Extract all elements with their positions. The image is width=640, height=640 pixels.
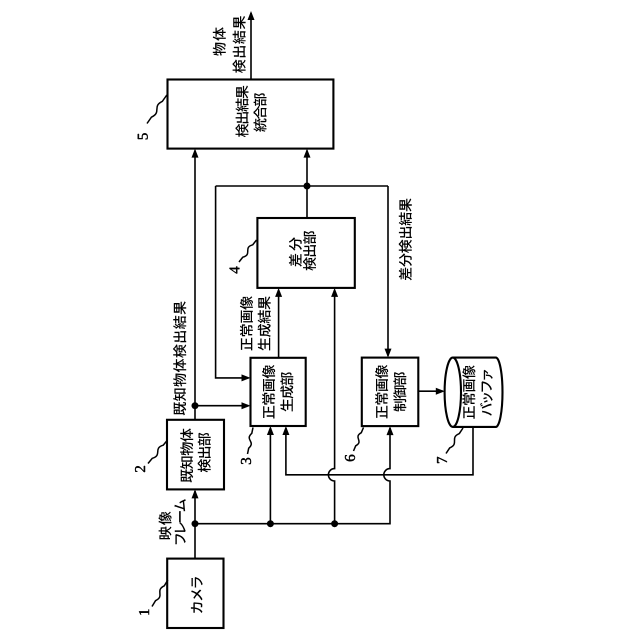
- arrowhead into block 5 left edge lower: [304, 149, 311, 158]
- block 5 text line2 統合部: [253, 93, 266, 132]
- junction dot at video frame trunk start: [192, 520, 199, 527]
- reference numeral 5: [138, 133, 148, 139]
- arrowhead into block 5 left edge upper: [192, 149, 199, 158]
- wire 既知物体検出結果 branch down into box3 top: [195, 405, 249, 407]
- reference numeral 3: [241, 458, 251, 464]
- buffer 7 正常画像バッファ (normal image buffer) cylinder: [453, 358, 503, 427]
- block 6 正常画像制御部 (normal image controller) box: [362, 358, 419, 427]
- arrowhead into block 3 left edge lower: [282, 426, 289, 435]
- wire 差分検出結果 box4 to box5: [306, 151, 308, 219]
- junction dot video frame branch to box4: [331, 520, 338, 527]
- arrowhead into block 4 left edge: [331, 288, 338, 297]
- reference numeral 2: [135, 466, 145, 472]
- arrowhead into block 6 left edge: [387, 426, 394, 435]
- arrowhead into block 3 left edge upper: [267, 426, 274, 435]
- label 差分検出結果 (difference detection result): [399, 198, 412, 280]
- block 3 text line2 生成部: [280, 372, 293, 411]
- label 映像 (video): [159, 512, 172, 540]
- label 検出結果 line2 of 物体検出結果: [233, 16, 246, 73]
- label 正常画像 line1 of 正常画像生成結果: [240, 296, 253, 350]
- label フレーム (frame): [174, 499, 185, 544]
- leader squiggle for numeral 6: [354, 428, 364, 452]
- wire 映像フレーム box1 to box2: [194, 491, 196, 559]
- reference numeral 1: [139, 609, 149, 614]
- junction dot difference result branch: [304, 183, 311, 190]
- wire 物体検出結果 output from box5: [250, 13, 252, 80]
- reference numeral 6: [345, 455, 355, 462]
- arrowhead into block 3 top edge left: [242, 402, 251, 409]
- label 生成結果 line2 of 正常画像生成結果: [258, 296, 271, 350]
- block 6 text line2 制御部: [393, 372, 406, 411]
- block 2 既知物体検出部 (known object detector) box: [167, 420, 224, 490]
- leader squiggle for numeral 2: [148, 440, 168, 464]
- leader squiggle for numeral 4: [239, 240, 257, 262]
- arrowhead into block 6 right edge: [385, 349, 392, 358]
- block 1 label text カメラ: [191, 577, 203, 613]
- junction dot known-object result branch: [192, 402, 199, 409]
- leader squiggle for numeral 7: [446, 428, 463, 454]
- reference numeral 4: [230, 267, 240, 274]
- block 4 text line1 差分: [289, 237, 302, 267]
- leader squiggle for numeral 1: [152, 580, 168, 607]
- wire 既知物体検出結果 box2 to box5: [194, 151, 196, 420]
- arrowhead into buffer top: [436, 388, 445, 395]
- wire 映像フレーム trunk down and into box6 left: [195, 428, 390, 524]
- block 2 text line2 検出部: [198, 433, 211, 473]
- buffer 7 text line1 正常画像: [462, 365, 475, 418]
- reference numeral 7: [437, 457, 447, 463]
- arrowhead into block 3 top edge right: [242, 374, 251, 381]
- label 既知物体検出結果 (known object detection result): [173, 301, 186, 415]
- wire box6 to buffer: [418, 390, 443, 392]
- block 5 検出結果統合部 (detection result integrator) box: [168, 80, 334, 149]
- wire buffer to box3 left route: [286, 427, 473, 475]
- arrowhead output 物体検出結果: [248, 11, 255, 20]
- wire 映像フレーム branch to box3 left: [269, 428, 271, 524]
- junction dot video frame branch to box3: [267, 520, 274, 527]
- leader squiggle for numeral 3: [248, 428, 254, 455]
- wire 映像フレーム branch to box4 left: [328, 290, 334, 524]
- block 6 text line1 正常画像: [375, 365, 388, 418]
- wire 差分検出結果 branch vertical: [216, 185, 388, 187]
- buffer 7 text line2 バッファ: [480, 370, 493, 416]
- arrowhead into block 4 left edge lower: [275, 288, 282, 297]
- block 3 text line1 正常画像: [262, 365, 275, 419]
- block 5 text line1 検出結果: [236, 85, 249, 137]
- block 4 text line2 検出部: [303, 231, 316, 271]
- wire 差分検出結果 branch to box3 top: [216, 186, 249, 378]
- block 3 正常画像生成部 (normal image generator) box: [251, 358, 306, 426]
- leader squiggle for numeral 5: [147, 95, 167, 124]
- block 4 差分検出部 (difference detector) box: [257, 218, 354, 288]
- label 物体 line1 of 物体検出結果: [213, 27, 226, 55]
- block 1 カメラ (camera) box: [167, 559, 223, 628]
- wire 正常画像生成結果 box3 to box4: [278, 290, 280, 358]
- block 2 text line1 既知物体: [180, 428, 193, 482]
- arrowhead into block 2 left edge: [192, 489, 199, 498]
- wire 差分検出結果 branch to box6 right: [387, 186, 389, 356]
